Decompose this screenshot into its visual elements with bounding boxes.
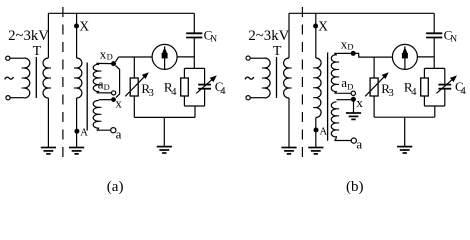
wire: R4-C4 bottom connector (a) bbox=[184, 106, 204, 117]
junction dot X (a) bbox=[74, 24, 79, 29]
wire: R4 top lead (a) bbox=[183, 68, 185, 78]
wire: bridge top right bus (b) bbox=[424, 67, 444, 69]
wire: xD to bridge (b) bbox=[353, 53, 392, 57]
wire: bridge top right bus (a) bbox=[184, 67, 204, 69]
svg-text:x: x bbox=[356, 95, 363, 110]
wire: R3 top lead (a) bbox=[133, 57, 135, 78]
capacitor C4 (a) bbox=[198, 85, 211, 89]
wire: left HV lead lower (b) bbox=[288, 98, 290, 147]
svg-text:X: X bbox=[318, 19, 328, 34]
junction dot xD (a) bbox=[111, 61, 116, 66]
wire: bridge top left, xD to detector (a) bbox=[119, 56, 153, 58]
wire: bridge bottom bus (b) bbox=[374, 116, 435, 118]
svg-text:T: T bbox=[33, 44, 42, 59]
svg-text:4: 4 bbox=[411, 87, 417, 98]
wire: left HV lead lower (a) bbox=[47, 98, 49, 147]
wire: x ground stem (b) bbox=[353, 102, 355, 113]
terminal: primary top (a) bbox=[6, 56, 10, 60]
arrow: R3 variable (a) bbox=[125, 72, 149, 96]
wire: a lead (b) bbox=[334, 136, 351, 140]
capacitor CN (b) bbox=[426, 33, 442, 37]
label: R4 (a) bbox=[164, 80, 177, 98]
svg-text:3: 3 bbox=[389, 88, 394, 99]
wire: tap winding top to xD (a) bbox=[96, 63, 111, 65]
label: CN (a) bbox=[204, 27, 218, 44]
ground: under A (b) bbox=[308, 148, 323, 154]
label: R4 (b) bbox=[404, 80, 417, 98]
label: R3 (b) bbox=[381, 81, 393, 99]
transformer T primary winding (a) bbox=[22, 58, 30, 98]
label: 2~3kV (b) bbox=[248, 28, 289, 44]
svg-text:D: D bbox=[104, 82, 110, 92]
wire: A lead (a) bbox=[76, 98, 78, 147]
svg-text:D: D bbox=[107, 52, 113, 62]
label: x (a) bbox=[115, 96, 122, 111]
transformer T core (a) bbox=[35, 57, 37, 98]
label: CN (b) bbox=[444, 27, 458, 44]
label: 2~3kV (a) bbox=[8, 28, 49, 44]
svg-text:D: D bbox=[347, 81, 353, 91]
wire: A lead (b) bbox=[315, 118, 317, 148]
AC source symbol (a) bbox=[5, 77, 14, 79]
wire: aD lead (a) bbox=[97, 91, 112, 93]
wire: C4 bottom lead (b) bbox=[444, 89, 446, 106]
terminal aD (a) bbox=[112, 91, 116, 95]
PT tap winding xD-aD (b) bbox=[331, 55, 339, 92]
terminal: primary bottom (b) bbox=[246, 96, 250, 100]
svg-text:x: x bbox=[115, 96, 122, 111]
wire: primary top lead (a) bbox=[10, 57, 24, 59]
null detector (a) bbox=[152, 44, 177, 69]
junction dot x (a) bbox=[111, 97, 116, 102]
wire: x lead (b) bbox=[337, 99, 352, 101]
wire: C4 bottom lead (a) bbox=[204, 89, 206, 106]
PT tap winding x-a (b) bbox=[331, 102, 339, 137]
PT core (a) bbox=[86, 63, 88, 131]
label: A (a) bbox=[80, 128, 88, 139]
PT HV winding X-A (b) bbox=[313, 58, 321, 118]
PT tap winding x-a (a) bbox=[93, 100, 101, 128]
svg-text:N: N bbox=[210, 35, 217, 45]
terminal a (a) bbox=[111, 128, 116, 133]
wire: left HV lead upper (a) bbox=[47, 13, 49, 58]
arrow: C4 variable (a) bbox=[196, 75, 217, 93]
terminal aD (b) bbox=[351, 91, 355, 95]
svg-text:a: a bbox=[341, 75, 347, 90]
svg-text:(b): (b) bbox=[346, 179, 364, 195]
wire: a lead (a) bbox=[97, 128, 111, 131]
wire: R4 top lead (b) bbox=[423, 68, 425, 78]
svg-text:2~3kV: 2~3kV bbox=[248, 28, 289, 44]
wire: R4 bottom lead (a) bbox=[183, 96, 185, 106]
terminal: primary top (b) bbox=[246, 56, 250, 60]
wire: bridge ground stem (b) bbox=[404, 117, 406, 146]
svg-text:(a): (a) bbox=[107, 179, 124, 195]
label: a (a) bbox=[116, 126, 122, 141]
terminal: primary bottom (a) bbox=[6, 96, 10, 100]
label: (b) bbox=[346, 179, 364, 195]
resistor R3 (b) bbox=[370, 78, 378, 96]
terminal a (b) bbox=[351, 138, 356, 143]
wire: left HV lead upper (b) bbox=[288, 13, 290, 58]
wire: R4-C4 bottom connector (b) bbox=[424, 106, 444, 117]
svg-text:4: 4 bbox=[171, 87, 177, 98]
ground: left (a) bbox=[41, 148, 56, 154]
svg-text:4: 4 bbox=[220, 86, 226, 97]
svg-text:4: 4 bbox=[461, 86, 467, 97]
label: a (b) bbox=[356, 137, 362, 152]
transformer T primary winding (b) bbox=[262, 58, 270, 98]
transformer T secondary winding (a) bbox=[43, 58, 51, 98]
wire: primary bottom lead (b) bbox=[250, 97, 264, 99]
shield dashed line (b) bbox=[301, 7, 303, 161]
PT core (b) bbox=[327, 53, 329, 141]
junction dot X (b) bbox=[313, 24, 318, 29]
junction dot A (a) bbox=[74, 129, 79, 134]
ground: at x (b) bbox=[346, 113, 361, 119]
null detector (b) bbox=[392, 44, 417, 69]
arrow: C4 variable (b) bbox=[437, 75, 458, 93]
wire: aD lead (b) bbox=[334, 91, 351, 93]
PT tap winding xD-aD (a) bbox=[93, 64, 101, 91]
wire: bridge bottom bus (a) bbox=[134, 116, 195, 118]
ground: bridge (b) bbox=[397, 147, 412, 153]
wire: primary bottom lead (a) bbox=[10, 97, 24, 99]
junction dot x (b) bbox=[351, 97, 356, 102]
wire: C4 top lead (a) bbox=[204, 68, 206, 84]
svg-text:X: X bbox=[79, 19, 89, 34]
arrow: R3 variable (b) bbox=[365, 72, 389, 96]
junction dot A (b) bbox=[314, 128, 319, 133]
label: aD (a) bbox=[98, 76, 110, 92]
label: x (b) bbox=[356, 95, 363, 110]
wire: C4 top lead (b) bbox=[444, 68, 446, 84]
svg-text:a: a bbox=[356, 137, 362, 152]
ground: left (b) bbox=[281, 148, 296, 154]
wire: bridge ground stem (a) bbox=[163, 117, 165, 146]
wire: tap winding top to xD (b) bbox=[334, 53, 351, 55]
PT HV winding X-A (a) bbox=[74, 58, 82, 98]
capacitor CN (a) bbox=[186, 33, 202, 37]
label: X (b) bbox=[318, 19, 328, 34]
label: R3 (a) bbox=[141, 81, 153, 99]
wire: primary top lead (b) bbox=[250, 57, 264, 59]
wire: R3 top lead (b) bbox=[373, 57, 375, 78]
label: A (b) bbox=[320, 126, 328, 137]
label: T (b) bbox=[273, 44, 282, 59]
wire: detector to CN node (b) bbox=[417, 56, 434, 58]
resistor R3 (a) bbox=[130, 78, 138, 96]
label: xD (b) bbox=[341, 36, 354, 51]
svg-text:a: a bbox=[116, 126, 122, 141]
wire: x lead (a) bbox=[99, 99, 111, 101]
resistor R4 (a) bbox=[181, 78, 189, 96]
svg-text:2~3kV: 2~3kV bbox=[8, 28, 49, 44]
AC source symbol (b) bbox=[245, 77, 254, 79]
label: xD (a) bbox=[100, 46, 113, 61]
svg-text:3: 3 bbox=[149, 88, 154, 99]
wire: R4 bottom lead (b) bbox=[423, 96, 425, 106]
svg-text:N: N bbox=[450, 35, 457, 45]
ground: under A (a) bbox=[69, 148, 84, 154]
transformer T secondary winding (b) bbox=[284, 58, 292, 98]
svg-text:T: T bbox=[273, 44, 282, 59]
wire: HV bus from transformer to CN (b) bbox=[289, 12, 434, 14]
svg-text:A: A bbox=[320, 126, 328, 137]
label: X (a) bbox=[79, 19, 89, 34]
wire: R3 bottom lead (a) bbox=[133, 96, 135, 117]
wire: X lead (b) bbox=[315, 13, 317, 58]
wire: CN lead (a) bbox=[193, 13, 195, 68]
label: T (a) bbox=[33, 44, 42, 59]
transformer T core (b) bbox=[276, 57, 278, 98]
wire: CN lead (b) bbox=[433, 13, 435, 68]
wire: X lead (a) bbox=[76, 13, 78, 58]
wire: HV bus from transformer to CN (a) bbox=[48, 12, 194, 14]
wire: strap xD to x (a) bbox=[115, 57, 119, 98]
resistor R4 (b) bbox=[421, 78, 429, 96]
shield dashed line (a) bbox=[62, 7, 64, 161]
wire: R3 bottom lead (b) bbox=[373, 96, 375, 117]
wire: detector to CN node (a) bbox=[177, 56, 194, 58]
label: aD (b) bbox=[341, 75, 353, 91]
ground: bridge (a) bbox=[157, 147, 172, 153]
label: C4 (a) bbox=[215, 79, 227, 97]
label: C4 (b) bbox=[455, 79, 467, 97]
label: (a) bbox=[107, 179, 124, 195]
junction dot xD (b) bbox=[351, 51, 356, 56]
svg-text:D: D bbox=[347, 42, 353, 52]
capacitor C4 (b) bbox=[438, 85, 451, 89]
